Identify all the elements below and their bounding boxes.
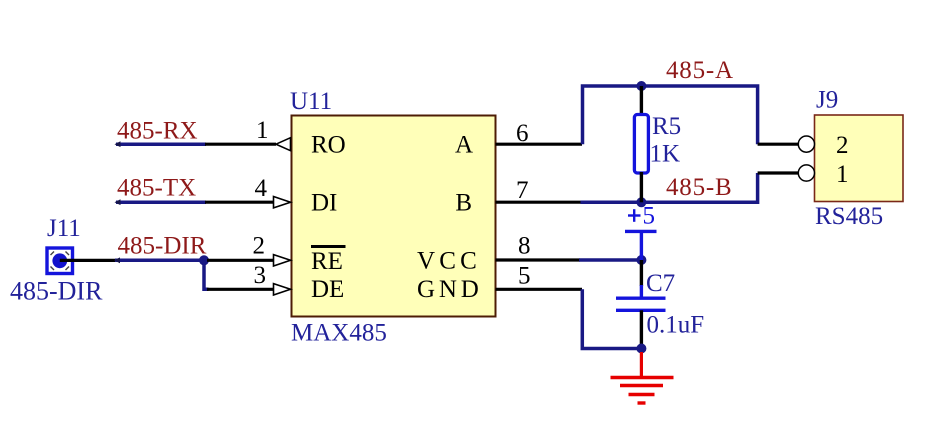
J9 pin 1 circle — [798, 165, 814, 181]
svg-text:RS485: RS485 — [815, 203, 883, 230]
wire 485-TX blue segment — [116, 200, 206, 204]
pin 2 triangle (input, tip right) — [274, 255, 291, 266]
ground bar 1 — [611, 376, 674, 379]
svg-text:2: 2 — [253, 233, 266, 260]
ground stem — [640, 352, 643, 378]
svg-text:C7: C7 — [646, 270, 675, 297]
svg-text:DI: DI — [311, 189, 337, 216]
capacitor C7 bottom plate — [616, 309, 666, 312]
power +5 label — [628, 214, 641, 216]
wire end arrow RX — [115, 141, 121, 147]
svg-text:4: 4 — [255, 175, 268, 202]
pin 5 wire black — [496, 288, 583, 291]
power +5 stem — [640, 231, 643, 260]
J9 pin 1 stub — [758, 171, 799, 174]
capacitor C7 top pin — [640, 260, 643, 286]
pin 3 triangle (input, tip right) — [274, 284, 291, 295]
pin 8 wire black — [496, 258, 581, 261]
svg-text:A: A — [455, 131, 473, 158]
svg-text:485-RX: 485-RX — [117, 118, 198, 145]
pin 6 wire black — [496, 143, 583, 146]
svg-text:J9: J9 — [816, 87, 838, 114]
svg-text:DE: DE — [311, 276, 344, 303]
svg-text:1K: 1K — [650, 141, 681, 168]
svg-text:2: 2 — [836, 132, 849, 159]
wire DIR down to DE — [204, 260, 209, 289]
pin 1 wire black — [205, 143, 276, 146]
svg-text:485-DIR: 485-DIR — [10, 277, 103, 306]
svg-text:RO: RO — [311, 131, 346, 158]
svg-text:1: 1 — [836, 161, 849, 188]
overline of RE — [311, 245, 346, 248]
resistor R5 top pin — [640, 86, 643, 116]
pin 3 wire black — [207, 288, 274, 291]
connector J11 — [47, 248, 73, 274]
pin 1 triangle (output, tip left) — [276, 138, 291, 151]
ground bar 3 — [629, 393, 655, 396]
wire 485-RX blue segment — [116, 142, 206, 146]
wire net 485-A — [583, 86, 758, 144]
junction dot DIR — [199, 255, 209, 265]
resistor R5 body — [634, 115, 648, 174]
svg-text:RE: RE — [311, 248, 343, 275]
wire VCC blue — [579, 258, 641, 262]
J11 pin wire black — [60, 259, 117, 262]
junction dot VCC — [636, 255, 646, 265]
svg-text:485-DIR: 485-DIR — [118, 233, 207, 260]
pin 7 wire black — [496, 201, 582, 204]
svg-text:1: 1 — [256, 117, 269, 144]
pin 4 triangle (input, tip right) — [274, 197, 291, 208]
wire end arrow DIR — [114, 257, 120, 263]
capacitor C7 top plate — [616, 297, 666, 300]
svg-text:MAX485: MAX485 — [291, 320, 387, 347]
svg-text:GND: GND — [417, 276, 483, 303]
J9 pin 2 stub — [758, 143, 799, 146]
wire 485-DIR blue segment — [115, 259, 204, 263]
resistor R5 bottom pin — [640, 172, 643, 202]
pin 4 wire black — [205, 201, 274, 204]
J9 pin 2 circle — [798, 136, 814, 152]
svg-text:5: 5 — [518, 263, 531, 290]
svg-text:5: 5 — [643, 203, 656, 230]
svg-text:U11: U11 — [290, 88, 332, 115]
wire net 485-B — [581, 173, 758, 202]
junction dot 485-A — [636, 81, 646, 91]
ground bar 2 — [620, 384, 663, 387]
svg-text:R5: R5 — [652, 113, 681, 140]
junction dot 485-B — [636, 197, 646, 207]
svg-text:7: 7 — [516, 177, 529, 204]
wire end arrow TX — [115, 199, 121, 205]
ground bar 4 — [638, 401, 646, 404]
svg-text:485-A: 485-A — [666, 57, 734, 84]
connector J9 box — [815, 115, 904, 202]
pin 2 wire black — [207, 259, 274, 262]
capacitor C7 bottom pin — [640, 310, 643, 348]
svg-text:B: B — [455, 189, 472, 216]
svg-text:0.1uF: 0.1uF — [647, 312, 705, 339]
svg-text:8: 8 — [518, 233, 531, 260]
svg-text:J11: J11 — [47, 215, 81, 242]
svg-text:3: 3 — [254, 262, 267, 289]
svg-text:485-TX: 485-TX — [117, 175, 196, 202]
wire GND blue elbow — [582, 289, 641, 348]
svg-text:485-B: 485-B — [666, 174, 733, 201]
power +5 bar — [625, 230, 657, 233]
op-amp U11 body (MAX485 IC rectangle) — [292, 116, 496, 317]
junction dot GND — [636, 344, 646, 354]
svg-text:VCC: VCC — [417, 247, 481, 274]
